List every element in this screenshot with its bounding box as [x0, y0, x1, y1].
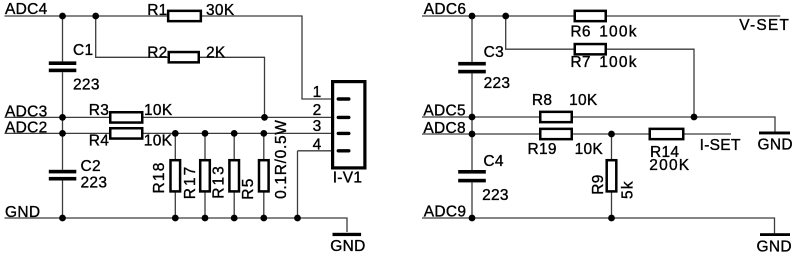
- svg-text:223: 223: [81, 175, 108, 192]
- svg-text:I-SET: I-SET: [700, 137, 741, 154]
- svg-text:GND: GND: [758, 136, 793, 153]
- svg-text:R7: R7: [570, 54, 590, 71]
- svg-text:100k: 100k: [599, 24, 638, 41]
- svg-text:ADC8: ADC8: [423, 120, 466, 137]
- svg-text:C4: C4: [483, 153, 503, 170]
- svg-text:10K: 10K: [569, 92, 598, 109]
- svg-text:R17: R17: [182, 165, 199, 199]
- svg-text:GND: GND: [5, 204, 40, 221]
- svg-text:ADC2: ADC2: [5, 120, 48, 137]
- svg-text:R13: R13: [211, 164, 228, 198]
- svg-text:R9: R9: [590, 174, 607, 194]
- svg-text:30K: 30K: [206, 2, 235, 19]
- svg-text:GND: GND: [757, 239, 792, 256]
- svg-text:C1: C1: [73, 42, 93, 59]
- svg-text:10K: 10K: [575, 141, 604, 158]
- svg-text:2K: 2K: [206, 45, 226, 62]
- svg-text:ADC6: ADC6: [424, 1, 467, 18]
- svg-text:ADC4: ADC4: [5, 1, 48, 18]
- svg-text:C2: C2: [81, 158, 101, 175]
- svg-text:3: 3: [313, 118, 322, 135]
- svg-text:I-V1: I-V1: [333, 170, 363, 187]
- svg-text:223: 223: [482, 187, 509, 204]
- svg-text:R3: R3: [89, 102, 109, 119]
- svg-text:200K: 200K: [649, 157, 690, 174]
- svg-text:R18: R18: [151, 161, 168, 193]
- svg-text:R1: R1: [147, 2, 167, 19]
- svg-text:R4: R4: [89, 133, 109, 150]
- svg-text:R2: R2: [147, 45, 167, 62]
- svg-text:R8: R8: [532, 92, 552, 109]
- svg-text:V-SET: V-SET: [739, 17, 790, 34]
- svg-text:R19: R19: [528, 141, 557, 158]
- svg-text:R5: R5: [240, 177, 257, 199]
- svg-text:ADC3: ADC3: [5, 104, 48, 121]
- svg-text:ADC9: ADC9: [424, 203, 467, 220]
- svg-text:GND: GND: [330, 238, 365, 255]
- svg-text:1: 1: [313, 84, 322, 101]
- svg-text:223: 223: [484, 75, 511, 92]
- svg-text:223: 223: [73, 77, 100, 94]
- svg-text:C3: C3: [484, 44, 504, 61]
- svg-text:10K: 10K: [144, 102, 173, 119]
- svg-text:ADC5: ADC5: [423, 102, 466, 119]
- svg-text:100k: 100k: [599, 54, 638, 71]
- svg-text:4: 4: [313, 136, 322, 153]
- svg-text:2: 2: [313, 102, 322, 119]
- svg-text:R6: R6: [570, 24, 590, 41]
- svg-text:10K: 10K: [144, 133, 173, 150]
- svg-text:0.1R/0.5W: 0.1R/0.5W: [273, 119, 290, 199]
- svg-text:5k: 5k: [620, 180, 637, 199]
